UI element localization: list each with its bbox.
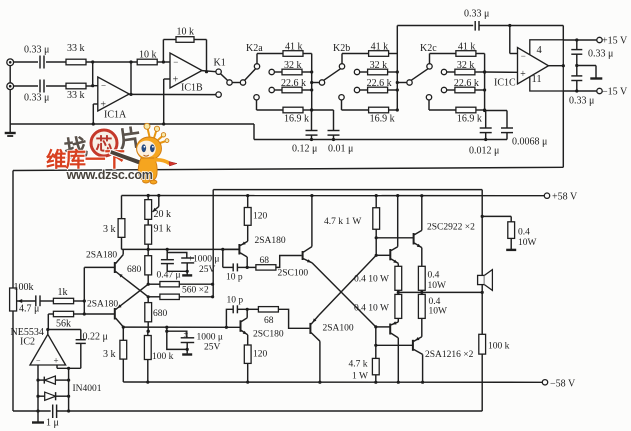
wire bbox=[46, 61, 66, 63]
svg-text:22.6 k: 22.6 k bbox=[367, 78, 392, 89]
IC1C package box with pins 4 and 11 bbox=[530, 40, 564, 91]
wire K2a output bus bbox=[311, 54, 313, 111]
wire global feedback line bbox=[13, 167, 563, 170]
svg-text:IC2: IC2 bbox=[20, 337, 35, 348]
wire VAS node vertical (lower) bbox=[375, 327, 377, 359]
svg-text:1k: 1k bbox=[58, 287, 68, 298]
wire IC1B plus input to ground bus bbox=[164, 78, 170, 80]
svg-text:91 k: 91 k bbox=[154, 224, 172, 235]
resistor 16.9k (K2b) bbox=[369, 107, 389, 113]
resistor 32k (K2b) bbox=[368, 69, 388, 75]
svg-text:IC1C: IC1C bbox=[494, 78, 516, 89]
ground (15V supply) bbox=[590, 77, 602, 79]
terminal +15V bbox=[597, 37, 602, 42]
svg-text:10 k: 10 k bbox=[177, 27, 195, 38]
output bus vertical (right) bbox=[481, 190, 483, 411]
svg-text:0.01 μ: 0.01 μ bbox=[328, 144, 353, 155]
node line (first stage) bbox=[122, 248, 239, 250]
wire left column down to volume pot bbox=[12, 171, 14, 289]
wire NE5534 output node bbox=[47, 330, 49, 335]
wire K2c pos1 bbox=[429, 54, 431, 64]
svg-text:K1: K1 bbox=[214, 58, 226, 69]
svg-text:32 k: 32 k bbox=[457, 60, 475, 71]
wire IC1B output bbox=[202, 71, 216, 72]
svg-text:560 ×2: 560 ×2 bbox=[182, 286, 209, 296]
svg-text:0.4: 0.4 bbox=[518, 228, 530, 238]
K2c contact 4 bbox=[426, 95, 431, 100]
wire IC1A plus input to ground bus bbox=[93, 103, 98, 105]
svg-text:www.dzsc.com: www.dzsc.com bbox=[66, 168, 153, 182]
svg-text:−: − bbox=[521, 51, 526, 61]
svg-text:1 W: 1 W bbox=[352, 372, 368, 382]
output node line bbox=[398, 291, 482, 293]
ground (input) bbox=[5, 132, 16, 134]
speaker bbox=[478, 275, 485, 284]
resistor 3k (upper left) bbox=[118, 219, 125, 238]
wire IC1C minus input bbox=[509, 26, 511, 54]
ground stub (0.4 10W) bbox=[506, 249, 516, 251]
wire base node vertical bbox=[83, 267, 85, 314]
wire K2a pos3 bbox=[275, 89, 283, 91]
svg-text:16.9 k: 16.9 k bbox=[457, 114, 482, 125]
K2b contact 3 bbox=[354, 87, 359, 92]
svg-text:32 k: 32 k bbox=[284, 60, 302, 71]
svg-text:+15 V: +15 V bbox=[602, 36, 628, 47]
resistor 1k bbox=[53, 298, 73, 303]
svg-text:−: − bbox=[173, 57, 178, 67]
resistor 3k (lower left) bbox=[120, 340, 127, 359]
svg-text:0.4: 0.4 bbox=[428, 271, 440, 281]
wire K2b output bus bbox=[396, 54, 398, 111]
resistor 120 (lower) bbox=[244, 345, 251, 363]
node A dot bbox=[91, 60, 94, 63]
wire K2a pos4 bbox=[256, 100, 258, 110]
svg-text:+: + bbox=[520, 69, 526, 80]
resistor 10k (series to IC1B) bbox=[137, 59, 157, 65]
svg-text:0.33 μ: 0.33 μ bbox=[569, 96, 594, 107]
base line 2SC2922 (upper) bbox=[376, 237, 413, 239]
svg-text:10W: 10W bbox=[518, 238, 537, 248]
resistor 120 (upper) bbox=[244, 208, 251, 226]
svg-text:33 k: 33 k bbox=[67, 90, 85, 101]
input jack J2 (bottom) bbox=[7, 83, 14, 90]
svg-text:IN4001: IN4001 bbox=[73, 384, 102, 394]
wire K2c output bus bbox=[484, 54, 486, 111]
svg-text:32 k: 32 k bbox=[370, 60, 388, 71]
svg-text:2SA100: 2SA100 bbox=[323, 324, 354, 334]
wire K2a pos2 bbox=[275, 71, 283, 73]
svg-text:120: 120 bbox=[253, 350, 268, 360]
pot wiper arrow bbox=[17, 300, 36, 302]
resistor 33k (top) bbox=[66, 59, 86, 65]
wire rail to 3k top bbox=[121, 196, 123, 219]
ground (bottom) bbox=[37, 411, 39, 422]
terminal +58V bbox=[544, 193, 549, 198]
capacitor 0.33u (bottom input) bbox=[39, 80, 41, 93]
capacitor 0.01u bbox=[333, 110, 335, 131]
svg-text:22.6 k: 22.6 k bbox=[454, 78, 479, 89]
svg-text:680: 680 bbox=[127, 265, 142, 275]
svg-text:10W: 10W bbox=[429, 307, 448, 317]
svg-text:16.9 k: 16.9 k bbox=[370, 114, 395, 125]
svg-text:0.33 μ: 0.33 μ bbox=[24, 93, 49, 104]
svg-text:25V: 25V bbox=[204, 343, 221, 353]
svg-text:IC1B: IC1B bbox=[181, 83, 203, 94]
+58V rail bbox=[122, 195, 545, 197]
svg-text:10 p: 10 p bbox=[226, 273, 243, 283]
svg-text:22.6 k: 22.6 k bbox=[281, 78, 306, 89]
svg-text:0.33 μ: 0.33 μ bbox=[588, 49, 613, 60]
capacitor 1u bbox=[52, 405, 54, 419]
svg-text:0.22 μ: 0.22 μ bbox=[83, 332, 108, 343]
wire K2b bus up to 0.33u feedback bbox=[396, 26, 398, 54]
resistor 41k (K2b) bbox=[369, 51, 389, 57]
wire 16.9k row extension bbox=[312, 109, 334, 111]
resistor 22.6k (K2a) bbox=[282, 87, 302, 93]
svg-text:0.4: 0.4 bbox=[429, 297, 441, 307]
op-amp IC1A bbox=[98, 77, 129, 111]
base line 2SA1216 (lower) bbox=[376, 344, 413, 346]
svg-text:120: 120 bbox=[253, 212, 268, 222]
wire to IC1B minus bbox=[157, 61, 170, 63]
ground bus (top section) bbox=[10, 123, 254, 125]
svg-text:2SA180: 2SA180 bbox=[87, 300, 118, 310]
svg-text:+1000 μ: +1000 μ bbox=[188, 255, 220, 265]
top line (output bus) bbox=[213, 189, 482, 191]
svg-text:100 k: 100 k bbox=[488, 342, 510, 352]
resistor 32k (K2c) bbox=[455, 69, 475, 75]
wire diode column right bbox=[68, 368, 70, 411]
svg-text:±: ± bbox=[184, 329, 189, 339]
K2a contact 2 bbox=[269, 69, 274, 74]
K2b contact 2 bbox=[354, 69, 359, 74]
svg-text:+: + bbox=[173, 74, 179, 85]
resistor 10k (IC1B feedback) bbox=[162, 40, 164, 63]
svg-text:41 k: 41 k bbox=[285, 42, 303, 53]
wire K2c pos2 bbox=[447, 71, 455, 73]
wire 0.22u to plus input line bbox=[57, 367, 81, 369]
K2a contact 1 bbox=[254, 64, 259, 69]
wire K2b bus to K2c pole bbox=[397, 82, 407, 84]
svg-text:2SC180: 2SC180 bbox=[253, 330, 284, 340]
svg-text:4.7 μ: 4.7 μ bbox=[19, 304, 39, 315]
wire right feedback vertical bbox=[562, 26, 564, 40]
svg-text:4: 4 bbox=[537, 45, 543, 56]
wire K2b pos2 bbox=[360, 71, 368, 73]
resistor 22.6k (K2c) bbox=[455, 87, 475, 93]
wire decoupling midpoint to ground bbox=[575, 64, 578, 67]
base line 2SC180 (lower) bbox=[123, 326, 240, 328]
resistor 100k (lower left) bbox=[147, 330, 150, 333]
resistor 0.4 10W (top right) bbox=[481, 215, 484, 218]
resistor 100k (output load) bbox=[479, 334, 486, 354]
capacitor 0.33u (IC1C feedback) bbox=[397, 25, 473, 27]
wire jack shield vertical bbox=[9, 66, 11, 83]
watermark dzsc.com bbox=[46, 123, 177, 184]
svg-text:+58 V: +58 V bbox=[552, 192, 578, 203]
K2c contact 2 bbox=[441, 69, 446, 74]
svg-text:41 k: 41 k bbox=[371, 42, 389, 53]
transistor Q7 driver (upper) bbox=[376, 254, 389, 256]
wire driver collector to +58V (upper) bbox=[396, 194, 399, 197]
svg-text:IC1A: IC1A bbox=[104, 110, 127, 121]
svg-text:K2a: K2a bbox=[246, 43, 263, 54]
wire 56k left to NE5534 output bbox=[47, 314, 49, 330]
trimmer wiper bbox=[157, 194, 160, 197]
svg-text:100 k: 100 k bbox=[152, 352, 174, 362]
svg-text:680: 680 bbox=[153, 309, 168, 319]
svg-text:10 p: 10 p bbox=[227, 296, 244, 306]
wire K2c 32k row to IC1C plus input bbox=[485, 71, 518, 73]
resistor 16.9k (K2c) bbox=[456, 107, 476, 113]
svg-text:+: + bbox=[54, 356, 59, 366]
svg-text:0.012 μ: 0.012 μ bbox=[469, 146, 499, 157]
diode IN4001 D1 bbox=[43, 377, 45, 384]
wire IC1C output bbox=[549, 65, 564, 67]
svg-text:2SC100: 2SC100 bbox=[278, 269, 309, 279]
resistor 680 (lower) bbox=[147, 297, 149, 303]
wire K2b pos4 bbox=[341, 100, 343, 110]
wire NE5534 minus input stub bbox=[37, 365, 39, 411]
svg-text:K2c: K2c bbox=[420, 43, 437, 54]
svg-text:0.4 10 W: 0.4 10 W bbox=[354, 275, 389, 285]
wire IC1A output row to K1 lower contact bbox=[129, 93, 216, 95]
resistor 20k trimmer bbox=[147, 194, 150, 197]
svg-text:2SA180: 2SA180 bbox=[86, 251, 117, 261]
svg-text:41 k: 41 k bbox=[458, 42, 476, 53]
resistor 56k bbox=[48, 313, 53, 315]
svg-text:−: − bbox=[101, 81, 106, 91]
svg-text:−15 V: −15 V bbox=[602, 87, 628, 98]
wire vertical node A to minus input bbox=[92, 62, 94, 86]
wire to IC1A inverting input bbox=[86, 85, 93, 87]
resistor 91k bbox=[147, 219, 149, 225]
svg-text:K2b: K2b bbox=[333, 43, 350, 54]
wire feedback bus vertical bbox=[212, 190, 214, 297]
svg-text:1000 μ: 1000 μ bbox=[197, 333, 223, 343]
potentiometer 100k (volume) bbox=[10, 288, 17, 311]
resistor 560 x2 (lower) bbox=[147, 295, 150, 298]
resistor 560 x2 (upper) bbox=[148, 283, 160, 285]
resistor 680 (upper) bbox=[147, 249, 149, 255]
ground (lower cluster) bbox=[182, 353, 192, 355]
svg-text:0.33 μ: 0.33 μ bbox=[24, 45, 49, 56]
ground (upper cluster) bbox=[182, 274, 192, 276]
svg-text:−58 V: −58 V bbox=[550, 378, 576, 389]
wire node A row bbox=[86, 61, 138, 63]
wire K2a pos1 bbox=[256, 54, 258, 64]
resistor 16.9k (K2a) bbox=[283, 107, 303, 113]
op-amp IC1B bbox=[170, 53, 202, 88]
capacitor 1000u 25V (upper) bbox=[167, 249, 187, 258]
capacitor 0.22u bbox=[80, 330, 82, 340]
svg-text:4.7 k 1 W: 4.7 k 1 W bbox=[324, 217, 361, 227]
diode IN4001 D2 bbox=[45, 392, 56, 400]
capacitor 0.47u bbox=[166, 249, 168, 259]
svg-text:16.9 k: 16.9 k bbox=[284, 114, 309, 125]
svg-text:3 k: 3 k bbox=[103, 224, 116, 235]
wire K2c 16.9k row to 0.0068u bbox=[485, 110, 507, 112]
node B dot bbox=[129, 60, 132, 63]
svg-text:4.7 k: 4.7 k bbox=[349, 360, 368, 370]
resistor 33k (bottom) bbox=[66, 83, 86, 89]
-58V rail bbox=[123, 381, 542, 383]
svg-text:2SC2922 ×2: 2SC2922 ×2 bbox=[427, 223, 475, 233]
wire top row left bbox=[14, 61, 38, 63]
svg-text:2SA1216 ×2: 2SA1216 ×2 bbox=[425, 350, 474, 360]
wire K2a bus to K2b pole bbox=[312, 82, 320, 84]
svg-text:33 k: 33 k bbox=[67, 43, 85, 54]
op-amp IC1C bbox=[518, 48, 549, 85]
resistor 41k (K2a) bbox=[283, 51, 303, 57]
svg-text:10W: 10W bbox=[428, 281, 447, 291]
input jack J1 (top) bbox=[7, 59, 14, 66]
capacitor 1000u 25V (lower) bbox=[167, 327, 187, 338]
wire K2b pos1 bbox=[341, 54, 343, 64]
svg-text:11: 11 bbox=[532, 74, 542, 85]
svg-text:1 μ: 1 μ bbox=[46, 418, 59, 429]
capacitor 0.12u bbox=[311, 110, 313, 131]
capacitor 0.33u (-15V) bbox=[571, 75, 582, 77]
+15V rail bbox=[563, 39, 596, 41]
svg-text:3 k: 3 k bbox=[103, 349, 116, 360]
svg-text:0.4 10 W: 0.4 10 W bbox=[354, 304, 389, 314]
K2c contact 3 bbox=[441, 87, 446, 92]
resistor 41k (K2c) bbox=[456, 51, 476, 57]
svg-text:68: 68 bbox=[264, 316, 274, 326]
-15V rail bbox=[563, 90, 596, 92]
wire 2SC100 emitter diagonal to lower VAS node bbox=[312, 263, 376, 327]
wire K2c pos3 bbox=[447, 89, 455, 91]
K2a contact 4 bbox=[254, 95, 259, 100]
terminal -15V bbox=[597, 88, 602, 93]
svg-text:0.0068 μ: 0.0068 μ bbox=[512, 137, 547, 148]
K2b contact 1 bbox=[339, 64, 344, 69]
svg-text:0.33 μ: 0.33 μ bbox=[464, 9, 489, 20]
wire K2b pos3 bbox=[360, 89, 368, 91]
wire bbox=[46, 85, 66, 87]
svg-text:2SA180: 2SA180 bbox=[255, 236, 286, 246]
wire K2c pos4 bbox=[428, 100, 430, 110]
terminal -58V bbox=[542, 380, 547, 385]
bottom return line with 1u cap bbox=[13, 410, 51, 412]
svg-text:0.12 μ: 0.12 μ bbox=[292, 144, 317, 155]
K2a contact 3 bbox=[269, 87, 274, 92]
svg-text:56k: 56k bbox=[56, 319, 71, 330]
K2b contact 4 bbox=[339, 95, 344, 100]
svg-text:−: − bbox=[36, 356, 41, 365]
K2c contact 1 bbox=[427, 64, 432, 69]
transistor Q9 driver (lower) bbox=[376, 326, 390, 328]
wire 2SA100 emitter diagonal to upper VAS node bbox=[319, 255, 377, 315]
capacitor 0.33u (+15V) bbox=[576, 40, 578, 50]
resistor 32k (K2a) bbox=[282, 69, 302, 75]
capacitor 0.0068u bbox=[506, 111, 508, 129]
wire 1k to base node bbox=[74, 300, 85, 302]
svg-text:10 k: 10 k bbox=[139, 50, 157, 61]
resistor 22.6k (K2b) bbox=[368, 87, 388, 93]
wire IC1A output to node B bbox=[130, 62, 132, 94]
wire NE5534 plus input stub bbox=[56, 365, 58, 368]
capacitor 0.012u bbox=[485, 111, 487, 129]
capacitor 0.33u (top input) bbox=[39, 56, 41, 69]
capacitor 4.7u bbox=[35, 295, 37, 306]
wire bbox=[40, 300, 53, 302]
wire bottom row left bbox=[14, 85, 38, 87]
svg-text:100k: 100k bbox=[14, 282, 34, 293]
